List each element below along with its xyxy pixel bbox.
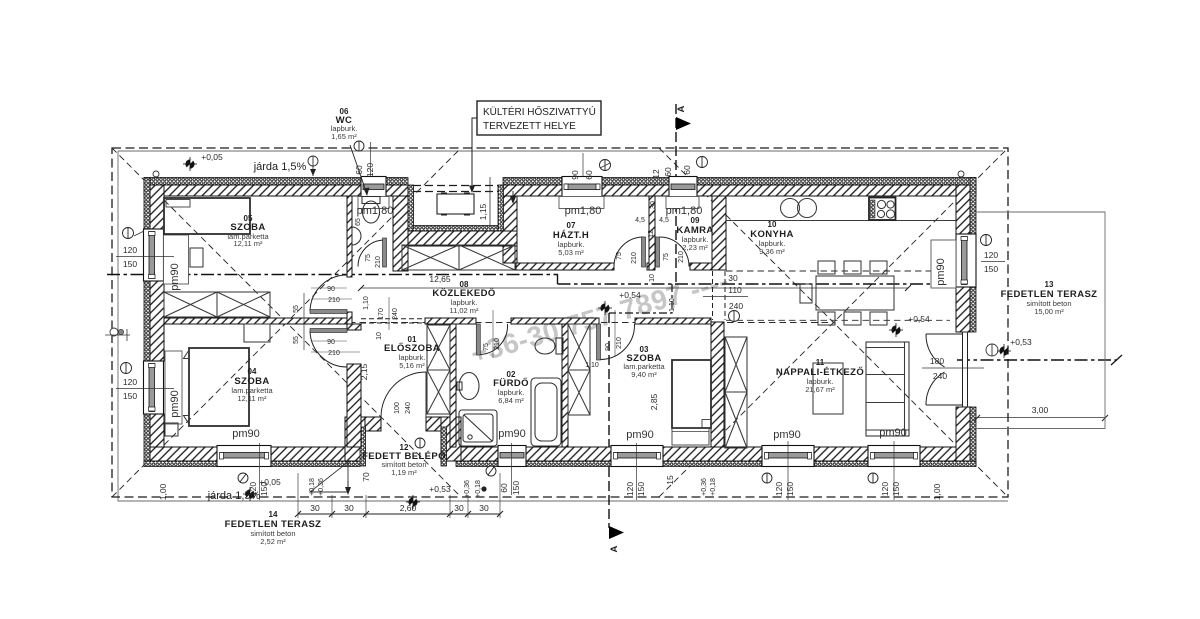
left wall dotted strip xyxy=(144,178,150,230)
svg-text:70: 70 xyxy=(361,472,371,482)
dim 1,15 niche xyxy=(489,177,491,226)
svg-text:pm90: pm90 xyxy=(169,390,181,418)
ridge dashed xyxy=(286,322,829,324)
svg-text:pm90: pm90 xyxy=(498,428,526,440)
svg-text:12: 12 xyxy=(648,230,655,238)
svg-text:120: 120 xyxy=(984,250,998,260)
svg-text:90: 90 xyxy=(327,339,335,346)
bottom wall window nappali 1 xyxy=(762,446,814,467)
corridor south wall segments xyxy=(425,318,476,324)
heat pump unit xyxy=(437,194,474,214)
kitchen sink circles xyxy=(781,199,800,218)
svg-text:pm1,80: pm1,80 xyxy=(565,205,602,217)
right wall dotted strip xyxy=(970,178,976,235)
section flag A top xyxy=(676,117,691,130)
door szoba05 from corridor xyxy=(310,275,347,311)
left wall hatch band xyxy=(150,185,164,229)
door belepo entry xyxy=(381,372,426,417)
svg-text:240: 240 xyxy=(392,308,399,320)
window hazt.h top wall xyxy=(559,177,604,209)
svg-text:55: 55 xyxy=(293,305,300,313)
svg-text:pm90: pm90 xyxy=(773,429,801,441)
svg-text:1,10: 1,10 xyxy=(585,362,599,369)
label nappali xyxy=(776,358,864,394)
svg-text:120: 120 xyxy=(123,245,137,255)
chairs bottom xyxy=(818,312,835,325)
bottom wall window szoba04 xyxy=(217,446,271,467)
bed szoba04 xyxy=(189,348,249,426)
nappali bottom window1 dims xyxy=(762,473,772,483)
label hazt.h xyxy=(553,221,589,257)
kitchen divider dashed xyxy=(726,270,943,272)
bed szoba03 xyxy=(672,360,711,428)
niche dotted strips xyxy=(408,185,504,231)
window wc top wall xyxy=(358,177,389,209)
left szoba05 window dims xyxy=(116,228,174,270)
label kamra xyxy=(676,216,713,252)
bottom wall window szoba03 xyxy=(611,446,663,467)
svg-text:210: 210 xyxy=(494,338,501,350)
svg-text:90: 90 xyxy=(327,286,335,293)
svg-text:2,23 m²: 2,23 m² xyxy=(682,243,708,252)
svg-text:pm90: pm90 xyxy=(935,258,947,286)
bottom dimension chain xyxy=(295,473,503,518)
svg-text:14: 14 xyxy=(269,510,278,519)
svg-text:150: 150 xyxy=(984,264,998,274)
svg-text:1,15: 1,15 xyxy=(478,203,488,220)
wall szoba03 / nappali xyxy=(711,322,724,447)
wall hazt.h / kamra xyxy=(649,196,655,270)
svg-text:10: 10 xyxy=(768,220,777,229)
svg-text:12,65: 12,65 xyxy=(429,274,451,284)
open passage eloszoba dashed xyxy=(361,318,425,320)
svg-text:pm1,80: pm1,80 xyxy=(666,205,703,217)
svg-text:90: 90 xyxy=(605,343,612,351)
svg-text:10: 10 xyxy=(376,332,383,340)
svg-text:9,36 m²: 9,36 m² xyxy=(759,247,785,256)
svg-text:60: 60 xyxy=(584,170,594,180)
svg-text:75: 75 xyxy=(365,254,372,262)
svg-text:1,00: 1,00 xyxy=(158,483,168,500)
nappali bottom window2 dims xyxy=(868,473,878,483)
svg-text:150: 150 xyxy=(259,482,269,496)
door furdo from corridor xyxy=(481,324,508,355)
section line A dashed vertical top xyxy=(609,104,676,528)
label terasz13 xyxy=(1001,280,1098,316)
wardrobe eloszoba xyxy=(427,325,450,414)
outer site boundary thin line xyxy=(118,151,1008,501)
svg-text:120: 120 xyxy=(625,482,635,496)
wall szoba05,04 divider xyxy=(164,318,347,324)
svg-text:30: 30 xyxy=(650,201,657,209)
svg-text:3,00: 3,00 xyxy=(1032,405,1049,415)
niche eaves dashed lines xyxy=(413,186,498,192)
cooktop xyxy=(869,198,896,221)
svg-text:1,10: 1,10 xyxy=(669,298,676,312)
svg-text:60: 60 xyxy=(354,165,364,175)
door kamra xyxy=(660,237,690,267)
svg-text:pm90: pm90 xyxy=(169,263,181,291)
wardrobe nappali xyxy=(725,337,747,448)
wall eloszoba / furdo xyxy=(450,324,456,447)
svg-text:+0,54: +0,54 xyxy=(908,314,930,324)
svg-text:+0,18: +0,18 xyxy=(710,478,717,496)
radiator szoba05 xyxy=(190,248,203,267)
wall szoba05 / wc xyxy=(347,196,352,277)
toilet furdo xyxy=(535,338,555,354)
svg-text:+0,53: +0,53 xyxy=(1010,337,1032,347)
svg-text:75: 75 xyxy=(483,343,490,351)
bottom wall dotted strip xyxy=(144,461,217,467)
svg-text:55: 55 xyxy=(293,336,300,344)
small circles on top wall xyxy=(153,171,159,177)
section flag A bottom xyxy=(609,526,624,539)
svg-text:07: 07 xyxy=(567,221,576,230)
svg-text:210: 210 xyxy=(375,256,382,268)
right wall hatch band xyxy=(956,185,970,234)
label eloszoba xyxy=(384,335,440,370)
bottom wall hatch band xyxy=(150,447,217,461)
svg-text:210: 210 xyxy=(631,252,638,264)
shower furdo xyxy=(459,410,497,446)
svg-text:90: 90 xyxy=(570,170,580,180)
window szoba04 left wall xyxy=(144,361,164,414)
svg-text:240: 240 xyxy=(405,402,412,414)
rug nappali xyxy=(813,363,843,414)
svg-text:járda 1,5%: járda 1,5% xyxy=(253,161,307,173)
szoba04 bottom window dims xyxy=(238,473,248,483)
benchmark corridor +0,54 xyxy=(598,301,612,315)
svg-text:A: A xyxy=(676,105,687,112)
door szoba04 from corridor xyxy=(310,331,347,367)
svg-text:1,65 m²: 1,65 m² xyxy=(331,132,357,141)
svg-text:60: 60 xyxy=(663,167,673,177)
svg-text:4,5: 4,5 xyxy=(635,217,645,224)
wardrobe szoba03 xyxy=(568,324,590,415)
svg-text:75: 75 xyxy=(616,252,623,260)
label kozlekedo xyxy=(432,280,495,315)
svg-text:110: 110 xyxy=(728,285,742,295)
svg-text:+0,18: +0,18 xyxy=(475,480,482,498)
svg-text:5,03 m²: 5,03 m² xyxy=(558,248,584,257)
section line B dash-dot xyxy=(107,275,1117,361)
svg-text:TERVEZETT HELYE: TERVEZETT HELYE xyxy=(483,121,576,132)
niche left wall xyxy=(393,196,517,271)
sill-parapet szoba04 xyxy=(165,351,182,424)
svg-text:30: 30 xyxy=(728,273,738,283)
svg-text:1,10: 1,10 xyxy=(363,296,370,310)
wall szoba04 / eloszoba xyxy=(347,324,361,330)
svg-text:180: 180 xyxy=(930,356,944,366)
furdo bottom window dims xyxy=(486,466,496,476)
svg-text:+0,05: +0,05 xyxy=(201,152,223,162)
svg-text:30: 30 xyxy=(344,503,354,513)
svg-text:240: 240 xyxy=(729,301,743,311)
sill szoba05 xyxy=(164,235,189,284)
svg-text:150: 150 xyxy=(123,259,137,269)
svg-text:+0,53: +0,53 xyxy=(429,484,451,494)
label konyha xyxy=(750,220,794,256)
label terasz14 xyxy=(225,510,322,546)
kulteri hoszivattyu box xyxy=(469,101,601,193)
svg-text:170: 170 xyxy=(378,308,385,320)
svg-text:75: 75 xyxy=(663,253,670,261)
svg-text:pm90: pm90 xyxy=(879,427,907,439)
svg-text:2,52 m²: 2,52 m² xyxy=(260,537,286,546)
basin wc06 xyxy=(352,227,361,245)
svg-text:210: 210 xyxy=(328,350,340,357)
svg-text:60: 60 xyxy=(682,165,692,175)
svg-text:120: 120 xyxy=(880,482,890,496)
svg-text:+0,54: +0,54 xyxy=(619,290,641,300)
svg-text:12,11 m²: 12,11 m² xyxy=(233,239,263,248)
wall furdo / szoba03 xyxy=(562,324,568,447)
svg-text:210: 210 xyxy=(328,297,340,304)
kitchen counter xyxy=(726,220,956,222)
svg-text:+0,36: +0,36 xyxy=(464,480,471,498)
toilet wc06 xyxy=(363,201,380,223)
bed szoba05 xyxy=(164,198,250,234)
svg-text:04: 04 xyxy=(248,367,257,376)
top kamra window dims xyxy=(651,157,708,179)
svg-text:12,11 m²: 12,11 m² xyxy=(237,394,267,403)
svg-text:150: 150 xyxy=(511,481,521,495)
label szoba04 xyxy=(231,367,273,403)
svg-text:21,67 m²: 21,67 m² xyxy=(805,385,835,394)
label szoba05 xyxy=(227,214,269,248)
eaves dashed rectangle xyxy=(112,148,1008,497)
svg-text:pm90: pm90 xyxy=(626,429,654,441)
svg-text:240: 240 xyxy=(933,371,947,381)
window kamra top wall xyxy=(666,177,699,209)
wardrobe szoba05 xyxy=(164,292,270,317)
svg-text:4,5: 4,5 xyxy=(659,217,669,224)
svg-text:150: 150 xyxy=(636,482,646,496)
benchmark top +0,05 xyxy=(183,157,197,171)
svg-text:10: 10 xyxy=(649,274,656,282)
svg-text:120: 120 xyxy=(123,377,137,387)
terasz13 outline xyxy=(976,212,1105,429)
svg-text:5,16 m²: 5,16 m² xyxy=(399,361,425,370)
svg-text:120: 120 xyxy=(248,482,258,496)
window szoba05 left wall xyxy=(144,229,189,284)
svg-text:11,02 m²: 11,02 m² xyxy=(449,306,479,315)
label wc06 outside xyxy=(331,107,370,196)
benchmark terasz +0,53 xyxy=(997,344,1011,358)
svg-text:2,60: 2,60 xyxy=(400,503,417,513)
top wall insulation dotted strip xyxy=(144,178,976,467)
svg-text:150: 150 xyxy=(123,391,137,401)
hazt.h / kamra south wall xyxy=(516,263,614,270)
svg-text:9,40 m²: 9,40 m² xyxy=(631,370,657,379)
benchmark bottom +0,05 xyxy=(243,487,257,501)
bathtub furdo xyxy=(531,378,561,446)
left szoba04 window dims xyxy=(116,363,174,402)
dining table xyxy=(816,276,894,310)
niche right wall xyxy=(503,196,517,263)
svg-text:120: 120 xyxy=(365,163,375,177)
top hazt.h window dims xyxy=(570,153,611,180)
svg-text:30: 30 xyxy=(310,503,320,513)
passage corridor-konyha dashed jambs xyxy=(712,271,714,320)
svg-text:13: 13 xyxy=(1045,280,1054,289)
svg-text:60: 60 xyxy=(499,483,509,493)
svg-text:100: 100 xyxy=(394,402,401,414)
basin furdo xyxy=(459,373,479,400)
svg-text:30: 30 xyxy=(454,503,464,513)
sofa nappali xyxy=(866,342,909,436)
niche bottom wall xyxy=(408,231,517,246)
nightstand szoba04 xyxy=(165,423,178,436)
svg-text:KÜLTÉRI HŐSZIVATTYÚ: KÜLTÉRI HŐSZIVATTYÚ xyxy=(483,104,596,118)
top wall hatch band xyxy=(144,185,976,461)
nappali-konyha divider dashed xyxy=(726,319,950,321)
svg-text:2,85: 2,85 xyxy=(649,393,659,410)
bottom wall window nappali 2 xyxy=(868,446,920,467)
svg-text:120: 120 xyxy=(774,482,784,496)
svg-text:6,84 m²: 6,84 m² xyxy=(498,396,524,405)
svg-text:150: 150 xyxy=(785,482,795,496)
svg-text:pm90: pm90 xyxy=(232,428,260,440)
svg-text:15,00 m²: 15,00 m² xyxy=(1034,307,1064,316)
door szoba03 from corridor xyxy=(601,324,635,360)
terrace double door right wall xyxy=(963,332,968,407)
label belepo12 xyxy=(362,443,446,477)
wardrobe corridor north xyxy=(402,245,515,270)
svg-text:210: 210 xyxy=(616,337,623,349)
svg-text:+0,18: +0,18 xyxy=(309,478,316,496)
label furdo xyxy=(493,370,529,405)
svg-text:+0,36: +0,36 xyxy=(318,478,325,496)
boundary benchmark left xyxy=(105,328,130,341)
svg-text:A: A xyxy=(609,545,620,552)
chairs top xyxy=(818,261,835,274)
svg-text:30: 30 xyxy=(479,503,489,513)
svg-text:150: 150 xyxy=(891,482,901,496)
roof hip diagonal right X xyxy=(659,148,1008,497)
svg-text:15: 15 xyxy=(665,475,675,485)
right nappali window dims xyxy=(981,235,1006,275)
svg-text:12: 12 xyxy=(651,169,661,179)
svg-text:1,19 m²: 1,19 m² xyxy=(391,468,417,477)
wall kamra / konyha xyxy=(712,196,726,270)
cabinet szoba04 xyxy=(244,324,270,342)
chair left xyxy=(800,284,812,303)
svg-text:+0,36: +0,36 xyxy=(701,478,708,496)
section A jog dash-dot xyxy=(609,284,672,313)
svg-text:pm1,80: pm1,80 xyxy=(357,205,394,217)
door hazt.h xyxy=(614,237,644,267)
svg-text:2,15: 2,15 xyxy=(359,363,369,380)
svg-text:1,00: 1,00 xyxy=(932,483,942,500)
top wc window dims xyxy=(354,141,375,177)
door wc xyxy=(358,240,385,267)
svg-text:11: 11 xyxy=(816,358,825,367)
svg-text:65: 65 xyxy=(355,218,362,226)
window nappali right wall xyxy=(931,234,976,288)
label szoba03 xyxy=(623,345,665,379)
entry ramp triangle xyxy=(310,462,348,492)
benchmark nappali +0,54 xyxy=(889,323,903,337)
benchmark bottom +0,53 xyxy=(406,495,420,509)
svg-text:09: 09 xyxy=(691,216,700,225)
roof hip diagonal left X xyxy=(112,148,1008,497)
svg-text:210: 210 xyxy=(678,251,685,263)
bottom wall window furdo xyxy=(498,446,526,467)
